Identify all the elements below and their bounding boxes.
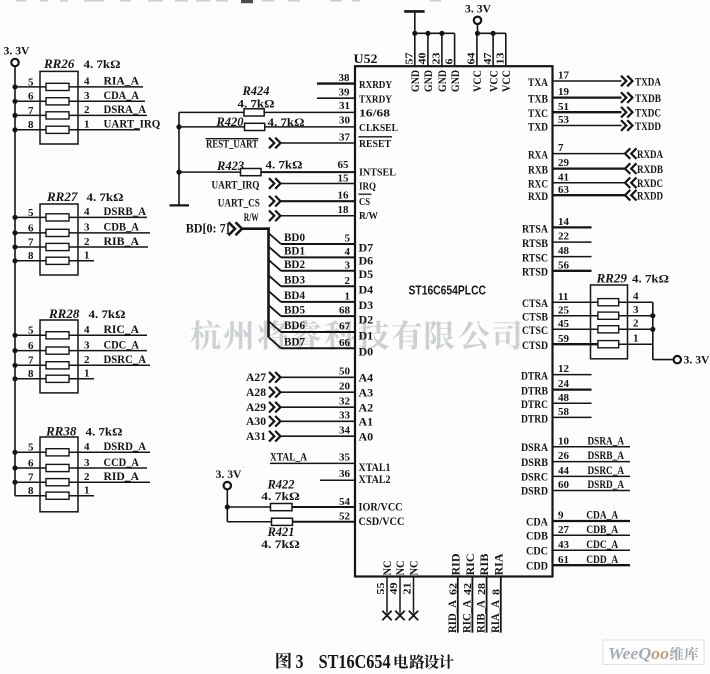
svg-text:36: 36	[339, 468, 351, 480]
svg-text:CDB_A: CDB_A	[104, 220, 140, 234]
svg-text:A30: A30	[246, 414, 266, 428]
node A30 to pin 33 (A1)	[246, 410, 373, 429]
svg-text:VCC: VCC	[488, 70, 500, 92]
svg-text:3: 3	[84, 457, 90, 469]
wire RIC pin 42 to RIC_A	[461, 554, 477, 634]
svg-text:DSRB_A: DSRB_A	[104, 204, 147, 218]
svg-text:TXC: TXC	[528, 106, 548, 120]
svg-text:DSRB_A: DSRB_A	[588, 448, 625, 462]
IC pin label RESET	[359, 137, 393, 150]
svg-text:RIC_A: RIC_A	[461, 599, 473, 633]
wire RIA pin 8 to RIA_A	[490, 553, 506, 633]
wire RXA pin7 from RXDA	[528, 142, 663, 161]
svg-text:67: 67	[339, 321, 351, 333]
svg-text:42: 42	[462, 582, 474, 595]
svg-text:5: 5	[28, 325, 34, 337]
wire DSRA pin10 to DSRA_A	[521, 433, 630, 454]
svg-text:13: 13	[495, 52, 507, 65]
svg-text:4: 4	[84, 76, 90, 88]
svg-text:57: 57	[404, 52, 416, 65]
svg-text:6: 6	[28, 222, 34, 234]
wire R424 row pin31	[179, 100, 355, 113]
wire middle pull-up rail	[178, 112, 180, 204]
svg-text:RTSD: RTSD	[522, 265, 548, 279]
wire CDC pin43 to CDC_A	[526, 537, 630, 558]
svg-text:RIC: RIC	[465, 554, 477, 576]
svg-text:A2: A2	[359, 401, 374, 415]
wire left 3.3V rail	[14, 66, 16, 496]
wire RR28 pin6 row	[12, 337, 147, 353]
svg-text:RXRDY: RXRDY	[359, 79, 392, 91]
svg-text:CDA: CDA	[526, 514, 548, 528]
svg-text:A31: A31	[246, 429, 266, 443]
wire TXC pin51 to TXDC	[528, 101, 661, 120]
svg-text:22: 22	[558, 231, 570, 243]
svg-text:63: 63	[558, 184, 570, 196]
wire BD4 to pin 1 (D3)	[269, 288, 374, 312]
svg-text:RXD: RXD	[528, 189, 548, 203]
svg-text:4: 4	[84, 441, 90, 453]
wire BD6 to pin 67 (D1)	[269, 318, 374, 342]
wire DTRB pin24 stub	[521, 378, 592, 397]
IC pin label CS	[359, 194, 372, 208]
svg-text:RID_A: RID_A	[447, 599, 459, 633]
svg-text:RIC_A: RIC_A	[104, 322, 140, 336]
node A29 to pin 32 (A2)	[246, 396, 373, 415]
svg-text:31: 31	[339, 100, 350, 112]
wire CTSB pin25 through RR29	[522, 304, 655, 324]
wire NC pin 21 (no connect)	[401, 561, 420, 621]
svg-text:RID_A: RID_A	[104, 469, 140, 483]
svg-text:UART_IRQ: UART_IRQ	[212, 178, 260, 192]
svg-text:4. 7kΩ: 4. 7kΩ	[89, 307, 126, 321]
svg-text:8: 8	[28, 485, 34, 497]
svg-text:28: 28	[476, 582, 488, 595]
svg-text:CDC_A: CDC_A	[586, 537, 618, 551]
svg-text:GND: GND	[437, 70, 449, 92]
svg-text:CTSD: CTSD	[522, 338, 548, 352]
svg-text:6: 6	[443, 58, 455, 65]
svg-text:3. 3V: 3. 3V	[4, 46, 31, 58]
svg-text:BD1: BD1	[284, 244, 305, 258]
svg-text:16: 16	[338, 189, 350, 201]
svg-text:R/W: R/W	[359, 210, 378, 222]
svg-text:38: 38	[339, 72, 351, 84]
wire REST_UART to pin37	[281, 132, 356, 144]
wire DSRC pin44 to DSRC_A	[521, 463, 630, 484]
svg-text:56: 56	[558, 259, 570, 271]
svg-text:1: 1	[84, 119, 90, 131]
svg-text:4: 4	[84, 206, 90, 218]
svg-text:CTSA: CTSA	[522, 296, 548, 310]
svg-text:1: 1	[84, 485, 90, 497]
svg-text:A0: A0	[359, 430, 374, 444]
wire TXA pin17 to TXDA	[528, 70, 661, 89]
wire RR38 pin8 row	[15, 485, 94, 498]
svg-text:BD5: BD5	[284, 302, 305, 316]
svg-text:IRQ: IRQ	[359, 180, 376, 192]
svg-text:IOR/VCC: IOR/VCC	[359, 500, 403, 514]
wire pin38 RXRDY stub	[317, 72, 392, 91]
svg-text:25: 25	[558, 304, 570, 316]
wire RXC pin41 from RXDC	[528, 171, 663, 190]
svg-text:TXB: TXB	[528, 92, 548, 106]
svg-text:INTSEL: INTSEL	[359, 167, 396, 179]
wire R420 row pin30	[176, 114, 355, 129]
IC U52 ST16C654PLCC body	[355, 66, 553, 576]
wire RR26 pin8 row	[12, 117, 160, 133]
svg-text:48: 48	[558, 245, 570, 257]
node R/W input	[244, 210, 281, 224]
svg-text:4. 7kΩ: 4. 7kΩ	[87, 190, 124, 204]
wire GND pin 6	[443, 33, 461, 92]
svg-text:4. 7kΩ: 4. 7kΩ	[261, 537, 300, 551]
wire GND bus top	[412, 31, 454, 36]
resistor R423	[216, 158, 303, 176]
svg-text:CSD/VCC: CSD/VCC	[359, 514, 405, 528]
svg-text:40: 40	[417, 52, 429, 65]
wire BD3 to pin 2 (D4)	[269, 273, 374, 297]
wire RR26 pin6 row	[12, 88, 145, 104]
wire RR38 pin7 row	[12, 469, 150, 485]
svg-text:32: 32	[339, 396, 351, 408]
svg-text:BD4: BD4	[284, 288, 305, 302]
svg-text:A27: A27	[246, 370, 266, 384]
wire BD1 to pin 4 (D6)	[269, 244, 374, 268]
resistor R422	[261, 477, 300, 510]
svg-text:RXDD: RXDD	[637, 189, 663, 203]
svg-text:27: 27	[558, 524, 570, 536]
wire RR27 pin5 row	[12, 204, 147, 220]
svg-text:BD7: BD7	[284, 334, 305, 348]
wire RR28 pin5 row	[12, 322, 147, 338]
wire GND pin 57	[404, 33, 422, 92]
svg-text:62: 62	[447, 582, 459, 595]
wire R/W to pin18	[281, 204, 356, 216]
svg-text:60: 60	[558, 479, 570, 491]
svg-text:DSRC: DSRC	[521, 470, 548, 484]
wire BD0 to pin 5 (D7)	[269, 230, 374, 254]
svg-text:3: 3	[84, 222, 90, 234]
svg-text:39: 39	[339, 87, 351, 99]
resistor network RR38	[40, 424, 123, 512]
svg-text:2: 2	[633, 318, 639, 330]
svg-text:CTSB: CTSB	[522, 310, 548, 324]
svg-text:3. 3V: 3. 3V	[216, 469, 243, 481]
svg-text:58: 58	[558, 406, 570, 418]
svg-text:R/W: R/W	[244, 210, 259, 224]
svg-text:TXRDY: TXRDY	[359, 93, 392, 105]
svg-text:A28: A28	[246, 385, 266, 399]
wire RTSC pin48 stub	[522, 245, 592, 264]
wire GND pin 40	[417, 33, 435, 92]
wire CDB pin27 to CDB_A	[526, 522, 630, 543]
svg-text:3. 3V: 3. 3V	[465, 4, 492, 16]
svg-text:TXDC: TXDC	[635, 106, 661, 120]
svg-text:10: 10	[558, 435, 570, 447]
svg-text:51: 51	[558, 101, 569, 113]
svg-text:16/68: 16/68	[359, 108, 391, 120]
svg-text:D0: D0	[359, 345, 374, 359]
svg-text:68: 68	[339, 305, 351, 317]
resistor network RR26	[40, 56, 121, 144]
terminal 3.3V top	[474, 17, 481, 24]
svg-text:DSRA: DSRA	[521, 440, 548, 454]
svg-text:29: 29	[558, 157, 570, 169]
wire DSRD pin60 to DSRD_A	[521, 477, 630, 498]
svg-text:A1: A1	[359, 415, 374, 429]
svg-text:1: 1	[633, 333, 639, 345]
svg-text:5: 5	[28, 442, 34, 454]
wire RXB pin29 from RXDB	[528, 157, 663, 176]
svg-text:18: 18	[338, 204, 350, 216]
svg-text:D7: D7	[359, 240, 374, 254]
svg-text:48: 48	[558, 392, 570, 404]
wire R421 row pin52 CSD/VCC	[227, 511, 404, 528]
wire RR28 pin7 row	[12, 352, 150, 368]
svg-text:RIA_A: RIA_A	[490, 599, 502, 633]
svg-text:3. 3V: 3. 3V	[684, 355, 710, 367]
svg-text:6: 6	[28, 457, 34, 469]
wire CDD pin61 to CDD_A	[526, 552, 630, 573]
svg-text:30: 30	[339, 114, 351, 126]
svg-text:8: 8	[28, 250, 34, 262]
svg-text:24: 24	[558, 378, 570, 390]
svg-text:49: 49	[388, 582, 400, 595]
svg-text:33: 33	[339, 410, 351, 422]
svg-text:BD0: BD0	[284, 230, 305, 244]
svg-text:RESET: RESET	[359, 138, 392, 150]
svg-text:35: 35	[339, 451, 351, 463]
svg-text:D4: D4	[359, 283, 374, 297]
svg-text:RR28: RR28	[48, 306, 80, 321]
wire DTRA pin12 stub	[521, 363, 592, 382]
resistor R421	[261, 518, 300, 551]
wire VCC bus top	[475, 24, 506, 36]
svg-text:2: 2	[345, 275, 351, 287]
svg-text:RXA: RXA	[528, 148, 548, 162]
wire pin39 TXRDY stub	[317, 87, 392, 106]
svg-text:RR29: RR29	[596, 271, 628, 286]
wire VCC pin 64	[466, 33, 484, 92]
node UART_IRQ	[212, 178, 281, 192]
svg-text:3: 3	[345, 259, 351, 271]
svg-text:A29: A29	[246, 400, 266, 414]
wire DSRB pin26 to DSRB_A	[521, 448, 630, 469]
wire R422 row pin54 IOR/VCC	[225, 496, 403, 514]
svg-text:D3: D3	[359, 298, 374, 312]
svg-text:2: 2	[84, 104, 90, 116]
svg-text:3: 3	[296, 651, 304, 673]
svg-text:DTRB: DTRB	[521, 384, 548, 398]
svg-text:U52: U52	[354, 51, 378, 66]
svg-text:3: 3	[84, 339, 90, 351]
svg-text:5: 5	[28, 207, 34, 219]
svg-text:11: 11	[558, 291, 568, 303]
svg-text:CDA_A: CDA_A	[104, 88, 140, 102]
svg-text:RIB_A: RIB_A	[476, 599, 488, 633]
resistor network RR27	[40, 189, 124, 275]
svg-text:RIA_A: RIA_A	[104, 74, 140, 88]
wire RR27 pin6 row	[12, 220, 150, 236]
svg-text:ST16C654PLCC: ST16C654PLCC	[409, 283, 487, 297]
svg-text:20: 20	[339, 381, 351, 393]
svg-text:9: 9	[558, 510, 564, 522]
wire TXD pin53 to TXDD	[528, 114, 661, 133]
wire RTSB pin22 stub	[522, 231, 592, 250]
svg-text:D2: D2	[359, 312, 374, 326]
svg-text:8: 8	[28, 368, 34, 380]
svg-text:D5: D5	[359, 267, 374, 281]
wire RR27 pin8 row	[12, 250, 94, 264]
wire NC pin 49 (no connect)	[388, 561, 407, 621]
svg-text:8: 8	[28, 119, 34, 131]
svg-text:BD2: BD2	[284, 257, 305, 271]
wire RR38 pin6 row	[12, 455, 147, 471]
node BD[0:7] bus entry	[186, 222, 242, 236]
svg-text:CDA_A: CDA_A	[586, 508, 618, 522]
svg-text:TXD: TXD	[528, 119, 548, 133]
wire DTRD pin58 stub	[521, 406, 592, 425]
svg-text:RIB_A: RIB_A	[104, 234, 140, 248]
cropped text remnants top edge	[16, 0, 441, 3]
wire RTSD pin56 stub	[522, 259, 592, 278]
svg-text:7: 7	[558, 142, 564, 154]
svg-text:61: 61	[558, 554, 569, 566]
svg-text:RR26: RR26	[43, 56, 75, 71]
wire RIB pin 28 to RIB_A	[476, 553, 492, 633]
svg-text:NC: NC	[382, 561, 394, 576]
caption 图3 ST16C654 电路设计	[276, 651, 453, 673]
svg-text:RXDB: RXDB	[637, 162, 663, 176]
svg-text:D1: D1	[359, 328, 374, 342]
svg-text:DSRC_A: DSRC_A	[104, 352, 147, 366]
svg-text:RXDA: RXDA	[637, 147, 663, 161]
wire CTSA pin11 through RR29	[522, 291, 653, 311]
svg-text:DSRD_A: DSRD_A	[104, 439, 147, 453]
resistor network RR28	[40, 306, 126, 393]
svg-text:A4: A4	[359, 371, 374, 385]
wire GND pin 23	[431, 33, 449, 92]
wire BD bus	[242, 227, 270, 337]
svg-text:34: 34	[339, 425, 351, 437]
svg-text:66: 66	[339, 337, 351, 349]
wire RR26 pin5 row	[12, 74, 143, 90]
node A28 to pin 20 (A3)	[246, 381, 373, 400]
wire TXB pin19 to TXDB	[528, 86, 661, 105]
svg-text:DTRA: DTRA	[521, 369, 548, 383]
svg-text:TXA: TXA	[528, 75, 548, 89]
svg-text:4. 7kΩ: 4. 7kΩ	[86, 425, 123, 439]
svg-text:CTSC: CTSC	[522, 323, 548, 337]
svg-text:DSRD_A: DSRD_A	[588, 477, 625, 491]
wire RR26 pin7 row	[12, 102, 147, 118]
svg-text:2: 2	[84, 236, 90, 248]
svg-text:BD[0: 7]: BD[0: 7]	[186, 222, 230, 236]
svg-text:DSRA_A: DSRA_A	[104, 102, 147, 116]
svg-text:1: 1	[345, 291, 351, 303]
svg-text:7: 7	[28, 236, 34, 248]
svg-text:RID: RID	[450, 554, 462, 576]
svg-text:DTRD: DTRD	[521, 411, 548, 425]
svg-text:41: 41	[558, 171, 569, 183]
svg-text:4: 4	[633, 291, 639, 303]
svg-text:CDD_A: CDD_A	[586, 552, 618, 566]
resistor R420	[215, 115, 305, 131]
svg-text:XTAL_A: XTAL_A	[270, 449, 307, 463]
svg-text:RTSB: RTSB	[522, 236, 548, 250]
node UART_CS	[218, 195, 281, 209]
logo WeeQoo 维库	[603, 640, 704, 665]
svg-text:4: 4	[84, 324, 90, 336]
resistor R424	[238, 84, 275, 116]
svg-text:17: 17	[558, 70, 570, 82]
svg-text:DSRB: DSRB	[521, 455, 548, 469]
svg-text:RIB: RIB	[479, 553, 491, 575]
svg-text:4. 7kΩ: 4. 7kΩ	[266, 158, 303, 172]
wire RR27 pin7 row	[12, 234, 148, 250]
wire VCC pin 13	[495, 33, 513, 92]
ground symbol top	[404, 11, 424, 33]
svg-text:64: 64	[466, 52, 478, 65]
svg-text:NC: NC	[409, 561, 421, 576]
wire VCC pin 47	[482, 33, 500, 92]
svg-text:RXB: RXB	[528, 163, 548, 177]
svg-text:2: 2	[84, 354, 90, 366]
wire RR38 pin5 row	[12, 439, 150, 455]
wire RID pin 62 to RID_A	[447, 554, 463, 634]
node A27 to pin 50 (A4)	[246, 366, 373, 385]
svg-text:8: 8	[490, 588, 502, 595]
svg-text:4. 7kΩ: 4. 7kΩ	[84, 57, 121, 71]
terminal 3.3V right	[674, 356, 681, 363]
wire UART_IRQ to pin15	[281, 172, 356, 184]
svg-text:2: 2	[84, 471, 90, 483]
wire RTSA pin14 stub	[522, 216, 592, 235]
svg-text:CS: CS	[359, 196, 370, 208]
svg-text:TXDD: TXDD	[635, 119, 661, 133]
svg-text:65: 65	[338, 159, 350, 171]
wire CTSC pin45 through RR29	[522, 318, 655, 338]
watermark 杭州将睿科技有限公司	[191, 320, 521, 350]
svg-text:VCC: VCC	[501, 70, 513, 92]
svg-text:4. 7kΩ: 4. 7kΩ	[261, 489, 300, 503]
svg-text:47: 47	[482, 52, 494, 65]
svg-text:UART_CS: UART_CS	[218, 195, 260, 209]
svg-text:RTSC: RTSC	[522, 251, 548, 265]
svg-text:TXDA: TXDA	[635, 74, 661, 88]
svg-text:DSRA_A: DSRA_A	[588, 433, 625, 447]
svg-text:1: 1	[84, 368, 90, 380]
svg-text:CDC: CDC	[526, 544, 548, 558]
svg-text:37: 37	[339, 132, 351, 144]
svg-text:21: 21	[401, 583, 413, 595]
wire R423 row pin65	[176, 159, 355, 175]
svg-text:26: 26	[558, 450, 570, 462]
wire 3.3V to R421	[226, 489, 228, 521]
svg-text:53: 53	[558, 114, 570, 126]
svg-text:DSRC_A: DSRC_A	[588, 463, 625, 477]
svg-text:A3: A3	[359, 386, 374, 400]
svg-text:55: 55	[375, 582, 387, 595]
terminal 3.3V mid-left	[224, 482, 231, 489]
svg-text:ST16C654: ST16C654	[319, 651, 391, 673]
svg-text:RTSA: RTSA	[522, 221, 548, 235]
svg-text:RIA: RIA	[493, 553, 505, 576]
svg-text:19: 19	[558, 86, 570, 98]
svg-text:VCC: VCC	[472, 70, 484, 92]
svg-text:14: 14	[558, 216, 570, 228]
